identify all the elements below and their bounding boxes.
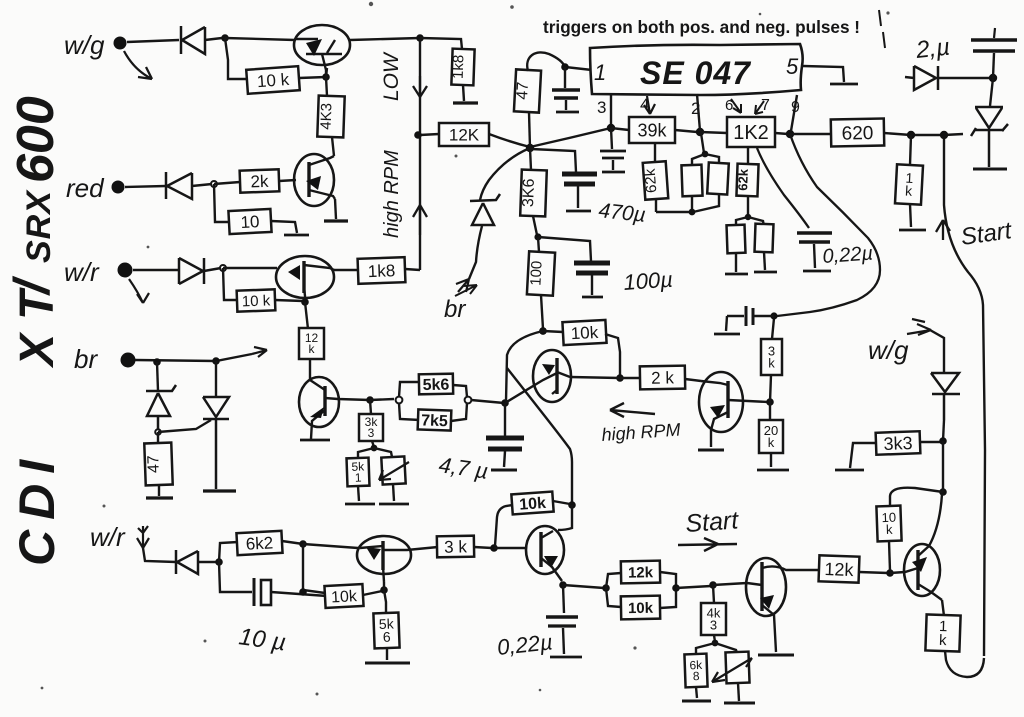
label br (mid) bbox=[444, 296, 466, 323]
ground bbox=[724, 702, 755, 705]
wire bbox=[563, 585, 604, 588]
wire bbox=[350, 38, 420, 40]
node W bbox=[366, 396, 374, 404]
wire bbox=[326, 68, 327, 77]
label w/g (right) bbox=[868, 335, 909, 365]
wire bbox=[529, 112, 530, 148]
wire bbox=[363, 591, 382, 595]
wire pin3 bbox=[610, 94, 612, 128]
wire bbox=[125, 186, 166, 187]
svg-text:10k: 10k bbox=[570, 323, 599, 343]
node A (w/g junction) bbox=[221, 34, 229, 42]
wire pin2 bbox=[697, 94, 704, 153]
resistor R3 4K3 bbox=[317, 96, 344, 138]
ground bbox=[146, 496, 173, 499]
svg-text:red: red bbox=[66, 173, 105, 203]
ground bbox=[899, 229, 926, 232]
transistor Q4 bbox=[299, 377, 370, 439]
ground bbox=[550, 656, 582, 659]
label LOW (rotated) bbox=[380, 51, 403, 101]
resistor R35 3k bbox=[437, 536, 474, 558]
wire bbox=[420, 134, 439, 135]
svg-text:triggers on both pos. and neg.: triggers on both pos. and neg. pulses ! bbox=[543, 17, 860, 37]
wire curve 1k2 to C7 bbox=[757, 148, 809, 228]
capacitor C6 (coupling) bbox=[727, 306, 774, 326]
wire bbox=[309, 359, 311, 379]
svg-text:w/g: w/g bbox=[64, 30, 105, 60]
node N bbox=[696, 128, 704, 136]
label w/g input bbox=[64, 30, 105, 60]
node AE bbox=[770, 312, 777, 319]
pin 4 label bbox=[640, 95, 649, 114]
svg-text:10k: 10k bbox=[519, 495, 547, 514]
resistor R25 5k6 bbox=[419, 374, 453, 395]
title text "CDI" (rotated) bbox=[9, 450, 65, 566]
resistor R7 10k bbox=[237, 289, 276, 311]
transistor Q6 bbox=[699, 372, 768, 447]
wire bbox=[326, 77, 334, 156]
ground bbox=[556, 111, 579, 114]
resistor R9 47 bbox=[144, 443, 172, 486]
wire bbox=[334, 269, 359, 271]
ground bbox=[602, 171, 625, 174]
label br input bbox=[74, 344, 98, 374]
terminal w/g bbox=[114, 37, 127, 50]
wire curve to br bbox=[480, 148, 530, 200]
svg-text:47: 47 bbox=[514, 81, 532, 100]
wire bracket bottom bbox=[656, 194, 719, 212]
wire bbox=[910, 135, 911, 227]
wire bbox=[990, 78, 993, 106]
wire bbox=[530, 148, 537, 235]
wire bbox=[942, 441, 944, 492]
capacitor C1 bbox=[552, 67, 580, 110]
arrow down bbox=[137, 526, 149, 548]
wire bracket bbox=[692, 154, 719, 166]
node Y (open) bbox=[396, 397, 403, 404]
label 0,22µ (top) bbox=[822, 243, 874, 268]
ground bbox=[300, 439, 330, 442]
resistor R19 bbox=[755, 224, 774, 253]
diode D1 bbox=[181, 26, 222, 54]
node U bbox=[534, 233, 541, 240]
svg-text:br: br bbox=[444, 296, 466, 323]
node G bbox=[153, 358, 161, 366]
wire bbox=[225, 38, 248, 79]
arrow near br bbox=[455, 285, 477, 296]
svg-text:5k6: 5k6 bbox=[423, 377, 450, 394]
wire bbox=[890, 488, 943, 506]
wire bbox=[494, 547, 526, 549]
node F bbox=[301, 298, 309, 306]
wire bbox=[474, 547, 492, 548]
pin 9 label bbox=[791, 99, 800, 116]
node AO bbox=[672, 584, 680, 592]
resistor R38 10k bbox=[621, 596, 660, 620]
wire bracket bbox=[736, 217, 764, 226]
wire bracket bbox=[606, 573, 621, 607]
svg-text:47: 47 bbox=[145, 455, 163, 473]
label 2,µ bbox=[914, 34, 951, 64]
wire bbox=[553, 501, 570, 504]
svg-text:100: 100 bbox=[527, 260, 545, 286]
pin 6 label bbox=[725, 97, 733, 114]
wire bbox=[282, 541, 303, 544]
node R bbox=[745, 214, 751, 220]
ground bbox=[754, 271, 777, 274]
resistor R11 47 bbox=[513, 69, 541, 112]
svg-text:12K: 12K bbox=[449, 126, 480, 145]
label high RPM (mid) bbox=[601, 420, 681, 445]
svg-text:XT: XT bbox=[11, 277, 64, 369]
svg-text:470µ: 470µ bbox=[597, 199, 646, 227]
wire bbox=[920, 441, 941, 443]
wire bbox=[143, 548, 176, 562]
wire bbox=[591, 275, 593, 295]
resistor R21 3K6 bbox=[520, 170, 547, 217]
IC U1 SE 047 bbox=[590, 44, 803, 95]
terminal w/r bbox=[118, 263, 133, 278]
resistor R24 5k1 bbox=[347, 458, 370, 487]
wire bracket bbox=[399, 382, 421, 420]
node AR bbox=[886, 569, 894, 577]
wire bbox=[620, 378, 701, 381]
svg-text:3k3: 3k3 bbox=[883, 433, 913, 454]
svg-text:620: 620 bbox=[841, 123, 873, 145]
wire bbox=[713, 585, 715, 642]
svg-text:k: k bbox=[768, 355, 775, 370]
svg-text:SE 047: SE 047 bbox=[640, 55, 752, 91]
node AP bbox=[709, 581, 717, 589]
svg-text:10 k: 10 k bbox=[242, 292, 271, 310]
diode Z2 bbox=[203, 397, 229, 489]
resistor R39 4k3 bbox=[701, 603, 726, 635]
potentiometer P2 bbox=[725, 652, 749, 684]
resistor R40 6k8 bbox=[684, 654, 707, 688]
svg-text:10: 10 bbox=[240, 212, 260, 232]
svg-text:3: 3 bbox=[597, 98, 606, 117]
label 0,22µ (bottom) bbox=[496, 629, 554, 660]
wire bracket bbox=[451, 385, 467, 421]
wire bbox=[471, 400, 504, 403]
wire bbox=[504, 451, 505, 467]
node AM bbox=[559, 581, 567, 589]
svg-text:k: k bbox=[768, 435, 775, 450]
wire bbox=[279, 180, 296, 181]
transistor Q8 bbox=[526, 505, 572, 581]
node AS bbox=[939, 437, 947, 445]
wire bbox=[713, 583, 747, 585]
wire bbox=[469, 226, 482, 279]
wire bbox=[942, 600, 944, 616]
dashed mark bbox=[879, 10, 885, 48]
svg-text:3 k: 3 k bbox=[444, 537, 468, 556]
label 4,7µ bbox=[437, 452, 489, 484]
wire bbox=[747, 147, 749, 215]
svg-text:w/r: w/r bbox=[64, 257, 100, 287]
wire bbox=[884, 133, 963, 135]
svg-text:CDI: CDI bbox=[9, 450, 65, 566]
arrow pin4 bbox=[644, 96, 655, 114]
svg-text:k: k bbox=[939, 632, 948, 649]
arrow fork bbox=[456, 279, 469, 292]
svg-text:12k: 12k bbox=[824, 559, 855, 580]
transistor Q3 bbox=[276, 256, 334, 301]
wire bbox=[611, 128, 697, 132]
node AJ bbox=[299, 588, 307, 596]
label Start (bottom) bbox=[684, 506, 740, 538]
ground bbox=[973, 168, 1007, 171]
resistor R13 bbox=[681, 165, 702, 197]
node AK bbox=[490, 544, 498, 552]
wire bbox=[405, 269, 420, 270]
svg-text:10k: 10k bbox=[628, 600, 654, 617]
wire bbox=[386, 648, 388, 660]
wire bbox=[930, 330, 944, 373]
pin 2 label bbox=[691, 99, 700, 118]
wire bbox=[577, 186, 579, 208]
node AL bbox=[568, 501, 576, 509]
resistor R5 10 bbox=[228, 209, 271, 234]
ground bbox=[725, 273, 748, 276]
wire bbox=[764, 252, 765, 270]
node S bbox=[907, 131, 915, 139]
svg-text:k: k bbox=[886, 522, 894, 537]
wire bbox=[133, 269, 179, 271]
resistor R1 1k8 bbox=[449, 49, 474, 86]
arrow pin6 bbox=[731, 99, 741, 113]
wire bbox=[219, 542, 238, 562]
node D bbox=[211, 181, 217, 187]
wire bbox=[738, 683, 739, 701]
ground bbox=[698, 449, 724, 452]
svg-text:62k: 62k bbox=[735, 168, 751, 191]
resistor R37 12k bbox=[621, 561, 660, 584]
node AH bbox=[299, 540, 307, 548]
wire bbox=[158, 420, 211, 432]
resistor R16 1k2 bbox=[727, 117, 775, 147]
ground bbox=[714, 333, 740, 336]
transistor Q9 bbox=[746, 558, 800, 652]
wire squiggle to pin1 bbox=[527, 52, 592, 71]
label 470µ bbox=[597, 199, 646, 227]
node P bbox=[689, 209, 696, 216]
resistor R41 12k bbox=[819, 555, 860, 582]
wire bbox=[655, 143, 656, 212]
wire bbox=[271, 221, 297, 233]
transistor Q7 bbox=[357, 536, 438, 582]
wire bbox=[384, 582, 386, 613]
pin 1 label bbox=[594, 60, 606, 85]
wire bracket bbox=[660, 572, 676, 608]
wire bbox=[127, 40, 179, 42]
node AI bbox=[380, 586, 388, 594]
label red input bbox=[66, 173, 105, 203]
node C bbox=[322, 73, 330, 81]
arrow down (LOW) bbox=[413, 76, 427, 97]
node AN bbox=[602, 584, 610, 592]
wire bbox=[370, 400, 374, 447]
wire bbox=[943, 420, 944, 441]
diode D2 bbox=[166, 172, 212, 199]
zener Z1 bbox=[146, 385, 176, 430]
wire curve bbox=[506, 331, 543, 401]
svg-text:1k8: 1k8 bbox=[367, 261, 395, 281]
svg-text:1k8: 1k8 bbox=[450, 54, 468, 79]
wire bbox=[158, 432, 159, 496]
wire bbox=[420, 38, 462, 49]
transistor Q1 bbox=[294, 25, 350, 77]
resistor R30 20k bbox=[759, 420, 783, 453]
wire bbox=[700, 132, 788, 134]
diode D6 bbox=[905, 66, 990, 90]
label Start (right) bbox=[959, 217, 1014, 251]
wire bbox=[335, 199, 336, 219]
capacitor C3 470u bbox=[562, 174, 597, 184]
resistor R36 10k bbox=[511, 492, 553, 515]
ground bbox=[453, 101, 478, 104]
wire bbox=[538, 237, 543, 329]
resistor R34 5k6 bbox=[373, 613, 399, 649]
wire pin9 bbox=[791, 95, 797, 131]
terminal br bbox=[121, 353, 136, 368]
node AC bbox=[616, 374, 624, 382]
resistor R26 7k5 bbox=[418, 409, 452, 430]
diode D4 bbox=[176, 550, 218, 574]
wire bbox=[157, 362, 158, 391]
wire bbox=[215, 361, 217, 396]
label w/r input bbox=[64, 257, 100, 287]
ground bbox=[365, 662, 410, 665]
svg-text:w/g: w/g bbox=[868, 335, 909, 365]
svg-text:Start: Start bbox=[684, 506, 740, 538]
wire bbox=[303, 544, 325, 593]
svg-text:high RPM: high RPM bbox=[381, 150, 403, 238]
capacitor C5 4,7u bbox=[486, 438, 524, 449]
wire up to 10k bbox=[495, 505, 513, 546]
wire bbox=[800, 569, 820, 571]
wire bbox=[299, 77, 326, 78]
wire bbox=[850, 443, 876, 468]
node AT bbox=[939, 488, 947, 496]
wire long right side bbox=[944, 139, 985, 656]
transistor Q2 bbox=[294, 154, 335, 206]
arrow through P2 bbox=[712, 658, 752, 682]
thyristor TH1 bbox=[971, 107, 1008, 167]
pin 3 label bbox=[597, 98, 606, 117]
svg-text:600: 600 bbox=[7, 96, 65, 183]
arrow left (high RPM) bbox=[610, 403, 655, 417]
wire bbox=[770, 318, 774, 402]
title text "/" (rotated) bbox=[4, 275, 60, 296]
svg-text:1K2: 1K2 bbox=[733, 122, 769, 144]
resistor R32 6k2 bbox=[236, 531, 282, 555]
resistor R31 1k bbox=[895, 164, 923, 204]
title text "600" (rotated) bbox=[7, 96, 65, 183]
wire bbox=[223, 267, 277, 269]
wire bbox=[463, 85, 464, 101]
wire bbox=[214, 184, 229, 222]
node AD bbox=[766, 398, 774, 406]
resistor R27 10k bbox=[562, 320, 606, 345]
resistor R12 39k bbox=[629, 117, 675, 143]
arrow right (Start) bbox=[678, 538, 737, 551]
node B bbox=[416, 34, 424, 42]
node J bbox=[414, 131, 422, 139]
ground bbox=[682, 700, 711, 703]
wire bbox=[135, 354, 252, 361]
arrow from w/r terminal bbox=[129, 279, 149, 303]
node AB bbox=[539, 327, 547, 335]
wire bbox=[305, 302, 308, 329]
resistor R4 2k bbox=[240, 169, 280, 192]
wire bbox=[563, 585, 564, 613]
pin 5 label bbox=[786, 54, 799, 79]
node K (mid junction) bbox=[526, 144, 534, 152]
resistor R44 1k bbox=[925, 614, 960, 651]
capacitor C4 100u bbox=[574, 263, 610, 273]
svg-text:100µ: 100µ bbox=[623, 267, 674, 295]
svg-text:10k: 10k bbox=[331, 588, 359, 606]
arrow up (Start) bbox=[936, 220, 950, 240]
wire bbox=[538, 237, 591, 261]
label 100µ bbox=[623, 267, 674, 295]
svg-text:2 k: 2 k bbox=[651, 368, 675, 387]
ground bbox=[203, 489, 236, 492]
wire bbox=[275, 300, 303, 301]
wire bbox=[223, 268, 238, 300]
transistor Q5 bbox=[505, 350, 571, 403]
wire bbox=[370, 399, 394, 400]
zener Z3 bbox=[470, 194, 500, 225]
ground bbox=[830, 83, 858, 86]
node L bbox=[561, 63, 569, 71]
resistor R17 62k bbox=[735, 164, 759, 197]
node E bbox=[220, 265, 226, 271]
ground bbox=[491, 469, 517, 472]
svg-text:k: k bbox=[309, 342, 316, 356]
svg-text:39k: 39k bbox=[637, 121, 667, 141]
ground bbox=[379, 503, 409, 506]
node H bbox=[212, 357, 220, 365]
wire bracket bbox=[358, 448, 392, 459]
wire pin5 to ground bbox=[803, 66, 844, 82]
resistor R18 bbox=[727, 225, 746, 254]
ground bbox=[757, 469, 789, 472]
svg-text:w/r: w/r bbox=[90, 522, 126, 552]
svg-text:1: 1 bbox=[594, 60, 606, 85]
svg-text:6k2: 6k2 bbox=[245, 533, 273, 553]
label high RPM (rotated) bbox=[381, 150, 403, 238]
node T bbox=[940, 131, 948, 139]
resistor R20 620 bbox=[831, 119, 884, 147]
wire bbox=[393, 484, 394, 501]
wire bbox=[676, 586, 711, 588]
node M bbox=[607, 124, 615, 132]
label w/r (bottom) bbox=[90, 522, 126, 552]
pin 7 label bbox=[761, 97, 770, 114]
node AG bbox=[215, 558, 223, 566]
wire bbox=[570, 377, 620, 378]
svg-text:10 k: 10 k bbox=[256, 70, 290, 91]
ground bbox=[566, 210, 591, 213]
ground bbox=[582, 296, 603, 299]
resistor R22 100 bbox=[527, 251, 555, 295]
resistor R8 12k bbox=[299, 328, 324, 359]
wire bus 12k to pin3 bbox=[489, 128, 611, 147]
wire big S curve bbox=[777, 134, 880, 316]
wire bbox=[945, 651, 984, 677]
